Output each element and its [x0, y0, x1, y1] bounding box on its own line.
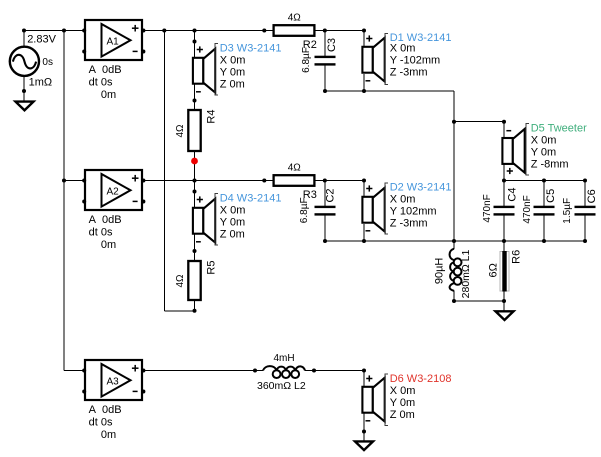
speaker D4 [193, 196, 215, 242]
svg-text:Z 0m: Z 0m [220, 228, 245, 240]
C2 name label [325, 188, 337, 202]
svg-text:C4: C4 [507, 188, 519, 202]
pin D1 top [362, 29, 366, 33]
wire D2 bottom lead [363, 224, 365, 241]
pin C2 bottom [323, 239, 327, 243]
svg-text:A2: A2 [107, 186, 120, 197]
pin R2 left [262, 29, 266, 33]
wire C3 to D1 bottom return [325, 90, 454, 92]
svg-text:4Ω: 4Ω [175, 124, 186, 138]
svg-text:Z -3mm: Z -3mm [390, 218, 428, 230]
speaker D3 [193, 46, 215, 92]
svg-text:4Ω: 4Ω [175, 274, 186, 288]
junction trunk row1 [62, 29, 66, 33]
svg-text:C3: C3 [326, 38, 338, 52]
C4 name label [507, 188, 519, 202]
svg-text:C6: C6 [586, 189, 598, 203]
A2 pin - input [82, 200, 86, 204]
wire A3 output row [142, 370, 263, 372]
pin C6 bottom [583, 239, 587, 243]
wire bottom bus [325, 240, 585, 242]
pin C3 bottom [323, 89, 327, 93]
wire A2 output row [142, 180, 274, 182]
wire ground stem D6 [363, 432, 365, 442]
pin D3 minus [193, 99, 197, 103]
svg-text:Y -102mm: Y -102mm [390, 54, 441, 66]
C6 value label [562, 198, 573, 224]
pin D2 bottom [362, 239, 366, 243]
svg-text:D5 Tweeter: D5 Tweeter [531, 123, 587, 135]
svg-text:D6 W3-2108: D6 W3-2108 [390, 373, 452, 385]
svg-text:360mΩ L2: 360mΩ L2 [257, 380, 306, 392]
capacitor C6 [575, 206, 596, 216]
junction row2 D4 [193, 179, 197, 183]
L2 value label [274, 353, 295, 364]
wire D1 top lead [363, 31, 365, 49]
wire R3 right to D2 [314, 180, 364, 182]
svg-text:90µH: 90µH [434, 258, 446, 285]
svg-text:X 0m: X 0m [220, 204, 246, 216]
label block D6 W3-2108 [385, 373, 451, 426]
pin D2 top [362, 179, 366, 183]
svg-text:X 0m: X 0m [390, 194, 416, 206]
wire D5 bottom lead [503, 164, 505, 181]
label block D2 W3-2141 [385, 182, 451, 235]
label block D5 Tweeter [526, 123, 587, 176]
junction C4 R6 [502, 239, 506, 243]
resistor R5 [188, 261, 200, 300]
pin D4 minus [193, 249, 197, 253]
svg-text:0m: 0m [101, 239, 116, 251]
pin L1 bottom [452, 299, 456, 303]
C4 value label [482, 194, 493, 222]
wire trunk to A2 input [64, 180, 85, 182]
C5 value label [522, 195, 533, 223]
svg-text:6.8µF: 6.8µF [299, 197, 310, 223]
label block D3 W3-2141 [215, 42, 281, 95]
svg-text:C2: C2 [325, 188, 337, 202]
resistor R2 [274, 25, 315, 36]
wire C6 top lead [584, 181, 586, 207]
wire D3 top lead [194, 31, 196, 58]
svg-text:4Ω: 4Ω [288, 163, 302, 174]
svg-text:X 0m: X 0m [531, 135, 557, 147]
C6 name label [586, 189, 598, 203]
capacitor C4 [494, 206, 515, 216]
op-amp A3 [85, 360, 142, 400]
svg-text:Y 102mm: Y 102mm [390, 206, 437, 218]
C3 value label [301, 47, 312, 73]
svg-text:Y 0m: Y 0m [220, 66, 245, 78]
svg-text:A 0dB: A 0dB [89, 214, 122, 226]
wire branch to R5 bottom [164, 310, 194, 312]
A2 pin + output [141, 179, 145, 183]
svg-text:dt 0s: dt 0s [89, 416, 113, 428]
wire L1 top lead [453, 241, 455, 249]
capacitor C5 [534, 206, 555, 216]
svg-text:0m: 0m [101, 89, 116, 101]
svg-text:6.8µF: 6.8µF [301, 47, 312, 73]
junction R2 C3 [323, 29, 327, 33]
svg-text:1mΩ: 1mΩ [29, 77, 53, 89]
wire cap top bus [504, 180, 585, 182]
pin D3 plus [193, 40, 197, 44]
wire D3 to R4 [194, 83, 196, 110]
svg-text:X 0m: X 0m [220, 54, 246, 66]
pin D5 top [502, 120, 506, 124]
svg-text:280mΩ L1: 280mΩ L1 [460, 249, 472, 298]
wire source top lead [23, 31, 25, 48]
junction trunk row2 [62, 179, 66, 183]
wire C2 bottom lead [324, 215, 326, 241]
ground D6 [355, 441, 373, 450]
junction L1 top [452, 239, 456, 243]
C5 name label [545, 189, 557, 203]
svg-text:R5: R5 [206, 261, 218, 275]
svg-text:0s: 0s [42, 57, 53, 68]
L1 value label [434, 258, 446, 285]
wire D6 bottom lead [363, 413, 365, 431]
A3 value label [89, 404, 122, 441]
wire C4 top lead [503, 181, 505, 207]
svg-text:dt 0s: dt 0s [89, 226, 113, 238]
R5 value label [175, 274, 186, 288]
wire source ground stem [23, 91, 25, 102]
A2 pin - output [141, 200, 145, 204]
svg-text:6Ω: 6Ω [488, 263, 500, 277]
C3 name label [326, 38, 338, 52]
A3 pin - output [141, 390, 145, 394]
svg-text:Z 0m: Z 0m [390, 409, 415, 421]
svg-text:X 0m: X 0m [390, 42, 416, 54]
label block D4 W3-2141 [215, 192, 281, 245]
A1 pin - input [82, 50, 86, 54]
svg-text:1.5µF: 1.5µF [562, 198, 573, 224]
wire return trunk down [453, 91, 455, 241]
wire R4 to row 2 [194, 151, 196, 181]
capacitor C2 [315, 206, 336, 216]
wire D2 top lead [363, 181, 365, 199]
R6 value label [488, 263, 500, 277]
wire A1 branch vertical [163, 31, 165, 311]
resistor R4 [188, 110, 200, 151]
pin R3 left [262, 179, 266, 183]
node red marker [191, 158, 198, 165]
node source top [22, 29, 26, 33]
A3 pin - input [82, 390, 86, 394]
A2 pin + input [82, 179, 86, 183]
svg-text:470nF: 470nF [482, 194, 493, 222]
V1 impedance label [29, 77, 53, 89]
svg-text:R4: R4 [206, 110, 218, 124]
R2 name label [303, 39, 317, 51]
wire R6 bottom lead [503, 291, 505, 301]
wire source to A1 input [24, 30, 85, 32]
svg-text:Z -3mm: Z -3mm [390, 66, 428, 78]
junction R5 bottom [193, 309, 197, 313]
svg-text:Y 0m: Y 0m [390, 397, 415, 409]
svg-text:A 0dB: A 0dB [89, 64, 122, 76]
pin D5 bottom [502, 179, 506, 183]
L1 name label [460, 249, 472, 298]
wire C5 top lead [543, 181, 545, 207]
voltage source V1 [10, 47, 39, 76]
svg-text:Y 0m: Y 0m [220, 216, 245, 228]
R6 name label [510, 250, 522, 264]
wire L1 to R6 bottom [454, 300, 504, 302]
wire A1 output row [142, 30, 274, 32]
pin L2 left [253, 369, 257, 373]
junction A1 branch [162, 29, 166, 33]
R3 value label [288, 163, 302, 174]
wire C2 top lead [324, 181, 326, 207]
pin D6 top [362, 369, 366, 373]
svg-text:X 0m: X 0m [390, 385, 416, 397]
A2 value label [89, 214, 122, 251]
wire main trunk vertical [63, 31, 65, 371]
svg-text:R6: R6 [510, 250, 522, 264]
wire R2 right to D1 [314, 30, 364, 32]
pin R6 bottom [502, 299, 506, 303]
A1 pin + output [141, 29, 145, 33]
R2 value label [288, 13, 302, 24]
svg-text:Y 0m: Y 0m [531, 147, 556, 159]
op-amp A2 [85, 170, 142, 210]
pin D4 plus [193, 190, 197, 194]
svg-text:D4 W3-2141: D4 W3-2141 [220, 192, 282, 204]
wire trunk to A3 input [64, 370, 85, 372]
wire L1 bottom lead [453, 291, 455, 302]
label block D1 W3-2141 [385, 32, 451, 84]
svg-text:4mH: 4mH [274, 353, 295, 364]
wire D4 to R5 [194, 233, 196, 261]
speaker D1 [362, 35, 384, 81]
speaker D2 [362, 185, 384, 231]
wire C5 bottom lead [543, 215, 545, 241]
inductor L1 [450, 249, 462, 291]
junction D3 top [193, 29, 197, 33]
node source bottom [22, 89, 26, 93]
speaker D5 [502, 129, 524, 174]
svg-text:C5: C5 [545, 189, 557, 203]
wire C3 bottom lead [324, 65, 326, 91]
svg-text:Z 0m: Z 0m [220, 78, 245, 90]
resistor R6 [500, 251, 509, 292]
svg-text:Z -8mm: Z -8mm [531, 159, 569, 171]
wire D5 top lead [503, 122, 505, 139]
wire L2 right to D6 [305, 370, 364, 372]
C2 value label [299, 197, 310, 223]
wire D1 bottom lead [363, 74, 365, 91]
wire R5 bottom lead [194, 300, 196, 311]
A1 value label [89, 64, 122, 101]
capacitor C3 [315, 56, 336, 66]
svg-text:2.83V: 2.83V [27, 33, 56, 45]
resistor R3 [274, 175, 315, 186]
R4 name label [206, 110, 218, 124]
R3 name label [303, 189, 317, 201]
A3 pin + output [141, 369, 145, 373]
wire D4 top lead [194, 181, 196, 208]
svg-text:dt 0s: dt 0s [89, 76, 113, 88]
L2 name label [257, 380, 306, 392]
R4 value label [175, 124, 186, 138]
V1 voltage label [27, 33, 56, 45]
svg-text:A 0dB: A 0dB [89, 404, 122, 416]
pin D6 bottom [362, 430, 366, 434]
inductor L2 [263, 366, 305, 378]
svg-text:4Ω: 4Ω [288, 13, 302, 24]
A3 pin + input [82, 369, 86, 373]
wire C4 bottom lead [503, 215, 505, 241]
ground source [16, 102, 34, 111]
svg-text:470nF: 470nF [522, 195, 533, 223]
pin C5 bottom [542, 239, 546, 243]
wire ground stem mid [503, 301, 505, 311]
svg-text:D2 W3-2141: D2 W3-2141 [390, 182, 452, 194]
R5 name label [206, 261, 218, 275]
wire C3 top lead [324, 31, 326, 57]
wire C6 bottom lead [584, 215, 586, 241]
pin L2 right [312, 369, 316, 373]
svg-text:A3: A3 [107, 376, 120, 387]
wire D6 top lead [363, 371, 365, 388]
pin C6 top [583, 179, 587, 183]
svg-text:D3 W3-2141: D3 W3-2141 [220, 42, 282, 54]
A1 pin - output [141, 50, 145, 54]
pin D1 bottom [362, 89, 366, 93]
wire R6 top lead [503, 241, 505, 252]
ground crossover [496, 311, 514, 320]
A1 pin + input [82, 29, 86, 33]
op-amp A1 [85, 20, 142, 60]
speaker D6 [362, 375, 384, 421]
junction D5 feed [452, 120, 456, 124]
wire to D5 feed [454, 121, 504, 123]
V1 delay label [42, 57, 53, 68]
svg-text:A1: A1 [107, 36, 120, 47]
wire source bottom lead [23, 76, 25, 102]
svg-text:0m: 0m [101, 429, 116, 441]
junction R3 C2 [323, 179, 327, 183]
pin C5 top [542, 179, 546, 183]
